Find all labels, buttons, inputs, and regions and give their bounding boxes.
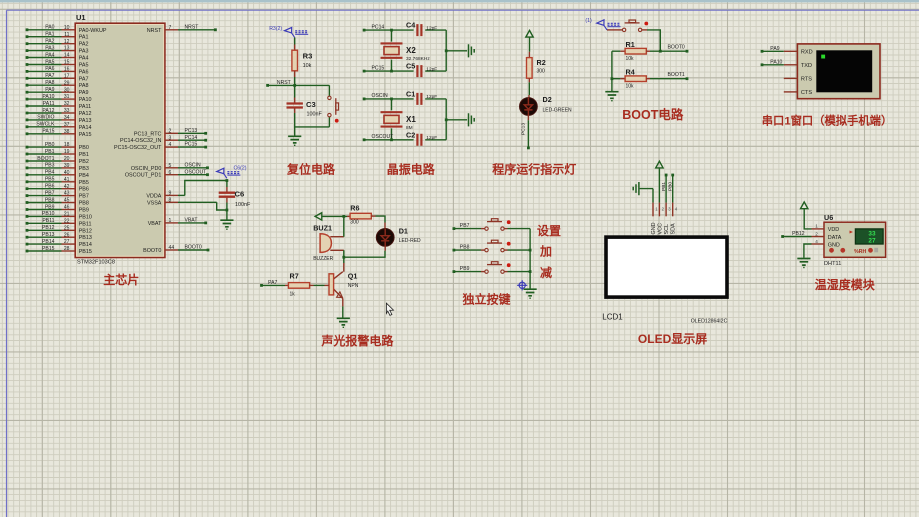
svg-text:41: 41 — [64, 177, 70, 183]
svg-text:减: 减 — [540, 265, 552, 280]
svg-text:BOOT1: BOOT1 — [668, 72, 685, 78]
svg-text:C2: C2 — [406, 130, 415, 139]
svg-text:DHT11: DHT11 — [824, 261, 841, 267]
svg-text:39: 39 — [64, 163, 70, 169]
svg-text:VDD: VDD — [828, 227, 839, 233]
svg-text:R6: R6 — [350, 204, 359, 213]
svg-text:PC13: PC13 — [521, 123, 527, 135]
svg-text:PB1: PB1 — [45, 149, 55, 155]
svg-text:BOOT电路: BOOT电路 — [622, 107, 684, 122]
svg-text:X2: X2 — [406, 46, 416, 55]
svg-text:PC15: PC15 — [372, 65, 385, 71]
svg-text:2: 2 — [169, 128, 172, 134]
svg-text:PC13_RTC: PC13_RTC — [134, 131, 162, 137]
svg-text:PB9: PB9 — [79, 208, 89, 214]
svg-text:%RH: %RH — [854, 249, 866, 255]
svg-text:12pF: 12pF — [426, 66, 437, 72]
svg-text:PB12: PB12 — [792, 231, 805, 237]
svg-text:LED-RED: LED-RED — [399, 238, 421, 244]
svg-text:RXD: RXD — [801, 49, 813, 55]
svg-text:PA3: PA3 — [79, 49, 89, 55]
svg-text:8: 8 — [169, 197, 172, 203]
svg-text:42: 42 — [64, 184, 70, 190]
svg-text:NRST: NRST — [277, 80, 291, 86]
svg-text:复位电路: 复位电路 — [286, 162, 336, 177]
svg-text:U6: U6 — [824, 213, 833, 222]
svg-text:19: 19 — [64, 149, 70, 155]
svg-text:PC14: PC14 — [372, 24, 385, 30]
svg-text:30: 30 — [64, 87, 70, 93]
svg-text:PC13: PC13 — [185, 128, 198, 134]
svg-text:OSCIN: OSCIN — [185, 162, 201, 168]
svg-text:VBAT: VBAT — [185, 218, 198, 224]
svg-text:C4: C4 — [406, 21, 415, 30]
svg-text:PA0-WKUP: PA0-WKUP — [79, 28, 107, 34]
svg-text:PA6: PA6 — [79, 69, 89, 75]
svg-text:OSCIN_PD0: OSCIN_PD0 — [131, 166, 162, 172]
svg-text:PC15: PC15 — [185, 142, 198, 148]
svg-text:PA9: PA9 — [770, 46, 779, 52]
svg-text:300: 300 — [350, 219, 359, 225]
svg-text:NPN: NPN — [348, 283, 359, 289]
svg-text:PA5: PA5 — [45, 59, 54, 65]
svg-text:独立按键: 独立按键 — [461, 292, 510, 307]
svg-text:SWCLK: SWCLK — [36, 122, 55, 128]
svg-text:11: 11 — [64, 32, 69, 38]
svg-text:VSSA: VSSA — [147, 200, 162, 206]
svg-text:LCD1: LCD1 — [602, 313, 623, 322]
svg-text:PA7: PA7 — [268, 280, 277, 286]
svg-text:20: 20 — [64, 156, 70, 162]
svg-text:14: 14 — [64, 53, 70, 59]
svg-text:18: 18 — [64, 142, 70, 148]
svg-text:31: 31 — [64, 94, 70, 100]
svg-text:PB2: PB2 — [79, 159, 89, 165]
svg-text:OSCOUT: OSCOUT — [372, 134, 394, 140]
svg-text:44: 44 — [169, 245, 175, 251]
svg-text:34: 34 — [64, 115, 70, 121]
svg-text:R1: R1 — [626, 40, 635, 49]
svg-text:晶振电路: 晶振电路 — [387, 162, 436, 177]
svg-text:R7: R7 — [290, 272, 299, 281]
svg-text:1k: 1k — [290, 292, 296, 298]
svg-text:PB3: PB3 — [79, 166, 89, 172]
svg-text:32.768KHz: 32.768KHz — [406, 56, 430, 62]
svg-text:R2: R2 — [537, 58, 546, 67]
svg-text:PA4: PA4 — [45, 52, 54, 58]
svg-text:2: 2 — [815, 231, 818, 236]
svg-text:PB6: PB6 — [79, 187, 89, 193]
svg-text:加: 加 — [539, 244, 552, 259]
svg-text:PA15: PA15 — [79, 132, 92, 138]
svg-text:12pF: 12pF — [426, 135, 437, 141]
svg-text:22: 22 — [64, 218, 70, 224]
svg-text:PA7: PA7 — [79, 76, 89, 82]
svg-text:10: 10 — [64, 25, 70, 31]
svg-text:100nF: 100nF — [307, 111, 323, 117]
svg-text:PB9: PB9 — [460, 266, 470, 272]
svg-text:29: 29 — [64, 80, 70, 86]
svg-text:12pF: 12pF — [426, 25, 437, 31]
svg-text:33: 33 — [868, 230, 876, 237]
svg-text:PA11: PA11 — [79, 104, 91, 110]
svg-text:(1): (1) — [585, 18, 592, 24]
svg-text:STM32F103C8: STM32F103C8 — [77, 260, 115, 266]
svg-text:PB7: PB7 — [79, 194, 89, 200]
svg-text:PB15: PB15 — [79, 249, 92, 255]
svg-text:PB10: PB10 — [79, 214, 92, 220]
svg-text:NRST: NRST — [185, 24, 199, 30]
svg-text:PC15-OSC32_OUT: PC15-OSC32_OUT — [114, 145, 162, 151]
svg-text:OSCOUT_PD1: OSCOUT_PD1 — [125, 173, 162, 179]
svg-text:PB5: PB5 — [79, 180, 89, 186]
svg-text:CTS: CTS — [801, 90, 812, 96]
svg-text:45: 45 — [64, 198, 70, 204]
svg-text:9: 9 — [169, 191, 172, 197]
svg-text:PB10: PB10 — [42, 211, 55, 217]
svg-text:PA12: PA12 — [42, 108, 54, 114]
svg-text:PB0: PB0 — [668, 182, 674, 191]
svg-text:PA11: PA11 — [43, 101, 55, 107]
svg-text:26: 26 — [64, 232, 70, 238]
svg-text:VDDA: VDDA — [146, 193, 161, 199]
svg-text:C1: C1 — [406, 89, 415, 98]
svg-text:SWDIO: SWDIO — [37, 115, 54, 121]
svg-text:PB12: PB12 — [42, 225, 55, 231]
svg-text:28: 28 — [64, 246, 70, 252]
svg-text:VCC: VCC — [657, 223, 663, 234]
svg-text:PA4: PA4 — [79, 56, 89, 62]
svg-text:PB9: PB9 — [45, 204, 55, 210]
svg-text:RTS: RTS — [801, 77, 812, 83]
svg-text:PB7: PB7 — [45, 190, 55, 196]
svg-text:DATA: DATA — [828, 235, 842, 241]
svg-text:LED-GREEN: LED-GREEN — [543, 108, 573, 114]
svg-text:温湿度模块: 温湿度模块 — [815, 277, 876, 292]
svg-text:U1: U1 — [76, 13, 86, 22]
svg-text:OLED12864I2C: OLED12864I2C — [691, 318, 728, 324]
svg-text:BUZZER: BUZZER — [313, 256, 333, 262]
svg-text:OSCIN: OSCIN — [372, 93, 388, 99]
svg-text:PB14: PB14 — [42, 239, 55, 245]
svg-text:PB13: PB13 — [42, 232, 55, 238]
svg-text:17: 17 — [64, 73, 70, 79]
svg-text:PA10: PA10 — [42, 94, 54, 100]
svg-text:GND: GND — [828, 242, 840, 248]
svg-text:PB15: PB15 — [42, 246, 55, 252]
svg-text:16: 16 — [64, 67, 70, 73]
svg-text:声光报警电路: 声光报警电路 — [320, 333, 394, 348]
svg-text:3: 3 — [169, 135, 172, 141]
svg-text:PA1: PA1 — [79, 35, 89, 41]
svg-text:PA10: PA10 — [770, 59, 782, 65]
svg-text:25: 25 — [64, 225, 70, 231]
svg-text:PA12: PA12 — [79, 111, 92, 117]
svg-text:40: 40 — [64, 170, 70, 176]
svg-text:PA15: PA15 — [42, 129, 54, 135]
svg-text:PB4: PB4 — [45, 170, 55, 176]
svg-text:PB7: PB7 — [460, 223, 470, 229]
svg-text:C3: C3 — [306, 100, 316, 109]
svg-text:4: 4 — [815, 239, 818, 244]
svg-text:PB0: PB0 — [79, 145, 89, 151]
svg-text:GND: GND — [651, 222, 657, 234]
svg-text:NRST: NRST — [147, 28, 162, 34]
svg-text:PA7: PA7 — [45, 73, 54, 79]
svg-text:BOOT1: BOOT1 — [37, 156, 54, 162]
svg-text:PC14-OSC32_IN: PC14-OSC32_IN — [120, 138, 161, 144]
svg-text:BOOT0: BOOT0 — [185, 245, 202, 251]
svg-text:10k: 10k — [626, 83, 635, 89]
svg-text:1: 1 — [169, 218, 172, 224]
svg-text:PA9: PA9 — [79, 90, 89, 96]
svg-text:TXD: TXD — [801, 63, 812, 69]
svg-text:程序运行指示灯: 程序运行指示灯 — [492, 162, 576, 177]
svg-text:PB13: PB13 — [79, 235, 92, 241]
svg-text:PB14: PB14 — [79, 242, 92, 248]
svg-text:33: 33 — [64, 108, 70, 114]
svg-text:PB3: PB3 — [45, 163, 55, 169]
svg-text:PA5: PA5 — [79, 63, 89, 69]
svg-text:PB11: PB11 — [42, 218, 54, 224]
svg-text:PA9: PA9 — [45, 87, 54, 93]
svg-text:4: 4 — [169, 142, 172, 148]
svg-text:R3(2): R3(2) — [269, 26, 282, 32]
svg-text:PA2: PA2 — [79, 42, 89, 48]
svg-text:BUZ1: BUZ1 — [313, 223, 332, 232]
svg-text:PB0: PB0 — [45, 142, 55, 148]
svg-text:C6: C6 — [235, 190, 245, 199]
svg-text:PB5: PB5 — [45, 177, 55, 183]
svg-text:PB12: PB12 — [79, 228, 92, 234]
svg-text:PB6: PB6 — [45, 184, 55, 190]
svg-text:PA8: PA8 — [79, 83, 89, 89]
svg-text:PB8: PB8 — [79, 201, 89, 207]
svg-text:串口1窗口（模拟手机端）: 串口1窗口（模拟手机端） — [762, 114, 893, 128]
svg-text:BOOT0: BOOT0 — [143, 248, 161, 254]
svg-text:PB4: PB4 — [79, 173, 89, 179]
svg-text:SCL: SCL — [664, 224, 670, 235]
svg-text:C6(2): C6(2) — [234, 166, 247, 172]
svg-text:设置: 设置 — [537, 223, 561, 238]
svg-text:PA8: PA8 — [45, 80, 54, 86]
svg-text:27: 27 — [868, 238, 876, 245]
svg-text:10k: 10k — [626, 56, 635, 62]
svg-text:13: 13 — [64, 46, 70, 52]
svg-text:27: 27 — [64, 239, 70, 245]
svg-text:8M: 8M — [406, 125, 413, 131]
svg-text:C5: C5 — [406, 62, 415, 71]
svg-text:主芯片: 主芯片 — [103, 272, 139, 287]
svg-text:PB8: PB8 — [460, 245, 470, 251]
svg-text:PA1: PA1 — [45, 32, 54, 38]
svg-text:PA2: PA2 — [45, 39, 54, 45]
svg-text:VBAT: VBAT — [148, 221, 162, 227]
svg-text:38: 38 — [64, 129, 70, 135]
svg-text:5: 5 — [169, 163, 172, 169]
svg-text:OLED显示屏: OLED显示屏 — [638, 332, 707, 346]
svg-text:PB1: PB1 — [79, 152, 89, 158]
svg-text:300: 300 — [537, 69, 546, 75]
svg-text:OSCOUT: OSCOUT — [185, 169, 207, 175]
svg-text:46: 46 — [64, 205, 70, 211]
svg-text:37: 37 — [64, 122, 70, 128]
svg-text:PB1: PB1 — [661, 182, 667, 191]
svg-text:D2: D2 — [543, 95, 552, 104]
svg-text:6: 6 — [169, 170, 172, 176]
svg-text:PA6: PA6 — [45, 66, 54, 72]
svg-text:X1: X1 — [406, 115, 416, 124]
svg-text:15: 15 — [64, 60, 70, 66]
svg-text:100nF: 100nF — [235, 202, 251, 208]
svg-text:Q1: Q1 — [348, 272, 358, 281]
svg-text:PA10: PA10 — [79, 97, 92, 103]
svg-text:43: 43 — [64, 191, 70, 197]
svg-text:SDA: SDA — [671, 223, 677, 234]
svg-text:PB8: PB8 — [45, 197, 55, 203]
svg-text:12pF: 12pF — [426, 94, 437, 100]
svg-text:D1: D1 — [399, 227, 408, 236]
svg-text:12: 12 — [64, 39, 70, 45]
svg-text:PA13: PA13 — [79, 118, 92, 124]
svg-text:PB11: PB11 — [79, 221, 92, 227]
svg-text:R4: R4 — [626, 68, 635, 77]
svg-text:PA14: PA14 — [79, 125, 92, 131]
svg-text:21: 21 — [64, 212, 70, 218]
svg-text:PA3: PA3 — [45, 45, 54, 51]
svg-text:10k: 10k — [303, 63, 312, 69]
svg-text:BOOT0: BOOT0 — [668, 45, 685, 51]
svg-text:32: 32 — [64, 101, 70, 107]
svg-text:PC14: PC14 — [185, 135, 198, 141]
svg-text:PA0: PA0 — [45, 25, 54, 31]
svg-text:7: 7 — [169, 25, 172, 31]
svg-text:R3: R3 — [303, 52, 313, 61]
svg-text:1: 1 — [815, 224, 818, 229]
